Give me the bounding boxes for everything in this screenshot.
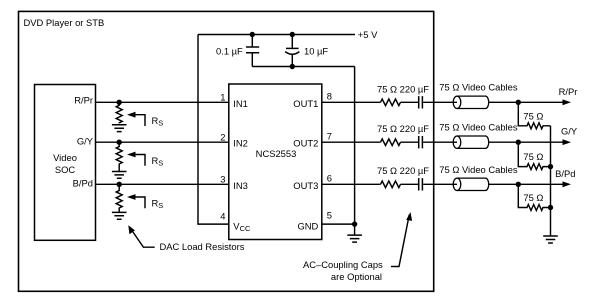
wire termination ground rail xyxy=(550,126,552,236)
svg-text:IN2: IN2 xyxy=(233,138,248,149)
svg-text:75 Ω Video Cables: 75 Ω Video Cables xyxy=(439,164,518,175)
svg-text:B/Pd: B/Pd xyxy=(555,168,575,179)
leader arrow DAC Load Resistors xyxy=(132,230,155,247)
resistor 75ohm OUT3 xyxy=(381,181,401,188)
junction dot termination 3 xyxy=(548,205,553,210)
junction dot top of C2 xyxy=(290,32,295,37)
svg-text:75 Ω: 75 Ω xyxy=(523,192,543,203)
coax cable row2 xyxy=(457,136,489,148)
node on R/Pr line xyxy=(117,100,122,105)
resistor 75ohm termination 2 xyxy=(518,142,550,169)
junction dot termination 2 xyxy=(548,164,553,169)
ground termination rail xyxy=(543,236,558,243)
leader arrow RS2 xyxy=(132,155,145,166)
svg-text:DVD Player or STB: DVD Player or STB xyxy=(24,17,105,28)
svg-text:0.1 µF: 0.1 µF xyxy=(216,46,243,57)
node on B/Pd line xyxy=(117,182,122,187)
svg-text:2: 2 xyxy=(220,131,225,142)
svg-text:1: 1 xyxy=(220,92,225,103)
coax cable row1 xyxy=(457,96,489,108)
svg-text:R/Pr: R/Pr xyxy=(559,86,578,97)
svg-text:+5 V: +5 V xyxy=(358,29,378,40)
node on G/Y line xyxy=(117,140,122,145)
wire bypass ground drop xyxy=(354,67,356,236)
resistor RS2 xyxy=(116,142,122,171)
capacitor C1 0.1uF xyxy=(251,35,253,67)
svg-text:Video: Video xyxy=(53,152,77,163)
wire OUT1 row xyxy=(322,101,564,103)
svg-text:GND: GND xyxy=(297,221,318,232)
node after cable row1 xyxy=(516,100,521,105)
capacitor C2 10uF (polarized) xyxy=(291,35,293,67)
svg-text:B/Pd: B/Pd xyxy=(73,178,93,189)
svg-text:SOC: SOC xyxy=(55,164,76,175)
node after cable row2 xyxy=(516,140,521,145)
ground RS1 xyxy=(112,125,127,132)
arrow terminal B/Pd xyxy=(563,181,572,187)
node after cable row3 xyxy=(516,182,521,187)
junction dot bottom of C2 xyxy=(290,64,295,69)
arrow terminal G/Y xyxy=(563,139,572,145)
junction dot GND pin xyxy=(352,221,357,226)
svg-text:75 Ω 220 µF: 75 Ω 220 µF xyxy=(377,165,429,176)
svg-text:are Optional: are Optional xyxy=(331,271,382,282)
ground at GND pin xyxy=(347,235,362,242)
capacitor 220uF OUT3 xyxy=(419,178,423,190)
resistor 75ohm OUT1 xyxy=(381,99,401,106)
resistor 75ohm OUT2 xyxy=(381,139,401,146)
resistor RS3 xyxy=(116,184,122,212)
wire SOC G/Y to IN2 xyxy=(96,141,229,143)
leader arrow RS1 xyxy=(132,115,145,126)
svg-text:75 Ω Video Cables: 75 Ω Video Cables xyxy=(439,82,518,93)
ground RS2 xyxy=(112,172,127,179)
wire OUT2 row xyxy=(322,141,564,143)
svg-text:7: 7 xyxy=(327,130,332,141)
wire bypass-cap bottom rail xyxy=(252,66,354,68)
coax cable row3 xyxy=(457,178,489,190)
svg-text:75 Ω: 75 Ω xyxy=(523,111,543,122)
wire GND pin 5 xyxy=(322,223,355,225)
wire OUT3 row xyxy=(322,183,564,185)
leader arrow AC-Coupling Caps xyxy=(391,215,409,267)
svg-text:6: 6 xyxy=(327,173,332,184)
+5V rail wire xyxy=(198,34,355,36)
svg-text:R/Pr: R/Pr xyxy=(74,95,93,106)
svg-text:IN3: IN3 xyxy=(233,180,248,191)
DVD Player or STB enclosure box xyxy=(19,11,434,291)
capacitor 220uF OUT1 xyxy=(419,96,423,108)
resistor 75ohm termination 1 xyxy=(518,102,550,129)
svg-text:8: 8 xyxy=(327,91,332,102)
svg-text:75 Ω: 75 Ω xyxy=(523,151,543,162)
svg-text:75 Ω Video Cables: 75 Ω Video Cables xyxy=(439,122,518,133)
svg-text:G/Y: G/Y xyxy=(561,126,578,137)
svg-text:10 µF: 10 µF xyxy=(304,46,328,57)
wire SOC B/Pd to IN3 xyxy=(96,183,229,185)
leader arrow RS3 xyxy=(132,197,145,208)
svg-text:3: 3 xyxy=(220,174,225,185)
svg-text:75 Ω 220 µF: 75 Ω 220 µF xyxy=(377,83,429,94)
svg-text:5: 5 xyxy=(327,210,332,221)
svg-text:AC–Coupling Caps: AC–Coupling Caps xyxy=(303,259,383,270)
wire +5V down to VCC pin 4 xyxy=(198,35,229,225)
svg-text:4: 4 xyxy=(220,210,225,221)
svg-text:OUT1: OUT1 xyxy=(293,98,318,109)
svg-text:IN1: IN1 xyxy=(233,98,248,109)
junction dot top of C1 xyxy=(250,32,255,37)
Video SOC box xyxy=(35,85,96,241)
op-amp U1 NCS2553 box xyxy=(229,84,322,240)
resistor RS1 xyxy=(116,102,122,123)
svg-text:OUT3: OUT3 xyxy=(293,180,318,191)
ground RS3 xyxy=(112,212,127,219)
svg-text:75 Ω 220 µF: 75 Ω 220 µF xyxy=(377,123,429,134)
wire SOC R/Pr to IN1 xyxy=(96,101,229,103)
resistor 75ohm termination 3 xyxy=(518,184,550,210)
svg-text:NCS2553: NCS2553 xyxy=(256,148,297,159)
svg-text:OUT2: OUT2 xyxy=(293,138,318,149)
svg-text:DAC Load Resistors: DAC Load Resistors xyxy=(160,241,245,252)
arrow terminal R/Pr xyxy=(563,99,572,105)
capacitor 220uF OUT2 xyxy=(419,136,423,148)
svg-text:G/Y: G/Y xyxy=(77,135,94,146)
